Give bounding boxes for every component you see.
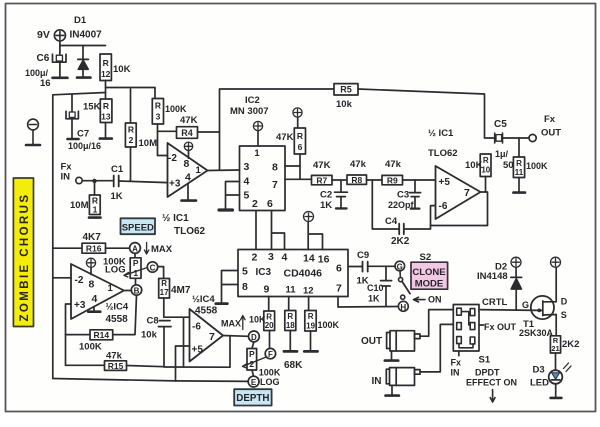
label box CLONE MODE: [411, 262, 448, 289]
resistor R10: [480, 154, 491, 177]
wire S1 Fx out stub: [479, 324, 484, 326]
svg-text:EFFECT ON: EFFECT ON: [466, 378, 517, 388]
jack IN: [386, 324, 454, 395]
svg-text:100K: 100K: [526, 161, 548, 171]
potentiometer P2: [247, 342, 257, 376]
svg-text:C: C: [150, 264, 156, 273]
resistor R3: [152, 99, 167, 156]
svg-text:10M: 10M: [70, 200, 89, 211]
power flag IC1a pin8: [184, 142, 192, 158]
svg-text:5: 5: [244, 190, 250, 202]
IC U3 CD4046 body: [238, 250, 348, 297]
wire R5 to right edge: [358, 89, 485, 138]
svg-text:R4: R4: [181, 128, 193, 138]
svg-text:100μ/16: 100μ/16: [68, 141, 101, 151]
svg-text:8: 8: [242, 281, 248, 293]
node A: [130, 243, 141, 254]
resistor R2: [125, 89, 136, 181]
svg-text:D: D: [251, 333, 257, 342]
capacitor C4 branch: [372, 180, 435, 234]
svg-text:6: 6: [267, 198, 273, 210]
svg-text:1K: 1K: [368, 294, 380, 304]
svg-text:Fx OUT: Fx OUT: [484, 322, 517, 332]
svg-text:S1: S1: [479, 355, 491, 366]
svg-text:TLO62: TLO62: [174, 226, 206, 237]
node F: [265, 348, 275, 358]
svg-text:4558: 4558: [106, 314, 129, 325]
svg-text:ZOMBIE CHORUS: ZOMBIE CHORUS: [19, 193, 31, 322]
svg-text:1: 1: [254, 148, 260, 159]
svg-text:C1: C1: [111, 164, 124, 175]
resistor R15: [66, 361, 164, 371]
svg-text:14: 14: [303, 253, 315, 265]
node E: [248, 376, 259, 387]
svg-text:16: 16: [318, 254, 330, 266]
svg-text:MN 3007: MN 3007: [230, 106, 269, 117]
power flag IC4a pin8: [86, 258, 95, 274]
capacitor C6: [53, 46, 68, 78]
switch S1 lugs: [457, 308, 475, 344]
label box DEPTH: [234, 389, 271, 405]
svg-text:100K: 100K: [259, 368, 281, 378]
wire +V rail2 to left vertical: [53, 93, 106, 379]
svg-text:IN4007: IN4007: [70, 30, 103, 41]
svg-text:½ IC1: ½ IC1: [428, 128, 454, 139]
svg-text:CRTL: CRTL: [482, 297, 508, 308]
wire S1 Fx in stub: [458, 351, 460, 356]
svg-text:1: 1: [93, 205, 98, 215]
node Fx OUT jack: [529, 134, 536, 141]
diode D1: [77, 46, 91, 78]
capacitor C10: [381, 266, 392, 306]
jack OUT: [385, 310, 454, 361]
svg-text:8: 8: [184, 158, 190, 170]
capacitor C9: [348, 262, 395, 272]
svg-text:R: R: [161, 279, 167, 288]
svg-text:R8: R8: [351, 175, 362, 185]
svg-text:68K: 68K: [284, 360, 303, 371]
svg-text:D3: D3: [533, 365, 545, 376]
capacitor C5: [486, 133, 530, 143]
ground IC1a pin4: [182, 184, 197, 201]
resistor R18: [284, 297, 297, 352]
svg-text:R: R: [155, 101, 161, 111]
svg-text:2K2: 2K2: [562, 339, 579, 350]
svg-text:8: 8: [89, 279, 95, 291]
wire -6 node IC4b: [164, 317, 190, 367]
svg-text:10K: 10K: [249, 315, 266, 325]
wire +V rail1: [106, 88, 156, 100]
arrow max down: [144, 243, 148, 255]
svg-text:R14: R14: [94, 330, 110, 340]
svg-text:2SK30A: 2SK30A: [519, 328, 554, 338]
svg-text:LOG: LOG: [105, 265, 126, 276]
svg-text:4: 4: [244, 176, 250, 188]
svg-text:CD4046: CD4046: [284, 268, 323, 280]
svg-text:6: 6: [336, 263, 342, 275]
svg-text:P: P: [249, 349, 255, 359]
svg-text:4: 4: [92, 293, 98, 305]
svg-text:21: 21: [551, 344, 559, 353]
svg-text:100K: 100K: [79, 342, 102, 353]
svg-text:15K: 15K: [83, 102, 101, 113]
power flag D2: [511, 257, 521, 267]
svg-text:3: 3: [268, 251, 274, 263]
wiper arrow P2: [243, 357, 267, 368]
wire IC3 pin7 to H: [338, 297, 398, 308]
svg-text:CLONE: CLONE: [412, 267, 445, 278]
svg-text:½ IC1: ½ IC1: [162, 213, 189, 224]
svg-text:1K: 1K: [320, 200, 332, 211]
svg-text:5: 5: [242, 266, 248, 278]
svg-text:Fx: Fx: [544, 114, 556, 125]
resistor R7: [312, 175, 333, 184]
resistor R21: [550, 336, 560, 370]
switch S2 node G: [395, 261, 405, 271]
svg-text:47k: 47k: [385, 159, 402, 170]
wire 9V to rail: [60, 41, 106, 46]
svg-text:1μ/: 1μ/: [495, 149, 509, 159]
svg-text:-2: -2: [168, 153, 177, 164]
svg-text:Fx: Fx: [451, 358, 462, 368]
svg-text:2: 2: [249, 359, 254, 369]
svg-text:R: R: [287, 312, 293, 321]
wiper arrow P1: [124, 268, 147, 278]
svg-text:IN4148: IN4148: [477, 271, 508, 282]
switch S2 lever: [399, 271, 411, 300]
svg-text:10k: 10k: [336, 99, 353, 110]
svg-text:R9: R9: [387, 176, 398, 186]
svg-text:R5: R5: [340, 85, 352, 95]
svg-text:7: 7: [336, 283, 342, 295]
wire IC2 pin7 to R7: [285, 178, 312, 180]
svg-text:ON: ON: [428, 295, 442, 305]
battery 9V positive terminal: [54, 30, 65, 41]
svg-text:F: F: [268, 350, 273, 359]
svg-text:½IC4: ½IC4: [106, 302, 129, 313]
svg-text:IN: IN: [372, 376, 382, 387]
svg-text:D: D: [561, 297, 568, 307]
svg-text:SPEED: SPEED: [122, 222, 154, 233]
svg-text:12: 12: [101, 69, 111, 79]
node C: [147, 262, 157, 272]
capacitor C7: [66, 94, 79, 139]
svg-text:E: E: [251, 378, 257, 387]
wire IC4a output to B: [124, 290, 131, 292]
svg-text:2: 2: [252, 198, 258, 210]
svg-text:7: 7: [209, 331, 215, 343]
resistor R11: [513, 138, 525, 193]
power flag IC2 pin1: [253, 121, 262, 146]
svg-text:7: 7: [464, 187, 470, 199]
power flag T1 drain: [551, 257, 561, 267]
resistor R1: [89, 181, 101, 218]
svg-text:4K7: 4K7: [83, 232, 102, 243]
resistor R8: [347, 175, 367, 184]
svg-text:19: 19: [306, 322, 315, 331]
wire IC2 pins4,5 to ground: [226, 182, 240, 210]
svg-text:100μ/: 100μ/: [25, 68, 49, 78]
svg-text:6: 6: [298, 142, 303, 152]
wire CRTL: [479, 309, 538, 312]
capacitor C3: [410, 180, 421, 209]
wire IC1a output to IC2 pin3: [208, 169, 240, 172]
svg-text:2: 2: [252, 252, 258, 264]
resistor R13: [100, 99, 112, 139]
svg-text:47K: 47K: [180, 115, 198, 126]
wire -2 input IC4a: [53, 277, 71, 279]
wire E long feedback: [53, 379, 248, 382]
svg-text:100K: 100K: [318, 320, 340, 330]
switch S2 node H: [398, 301, 408, 311]
svg-text:4: 4: [185, 172, 191, 184]
wire C1 to +3 input: [119, 181, 168, 183]
svg-text:9V: 9V: [37, 29, 50, 41]
wire input: [82, 180, 113, 182]
arrow ON: [414, 297, 426, 302]
resistor R14: [66, 330, 113, 340]
svg-text:R: R: [128, 125, 134, 135]
wire R8 to R9: [367, 179, 383, 181]
svg-text:G: G: [522, 300, 529, 310]
svg-text:C2: C2: [320, 190, 332, 201]
svg-text:4558: 4558: [195, 306, 218, 317]
svg-text:R15: R15: [108, 361, 124, 371]
svg-text:3: 3: [244, 161, 250, 173]
capacitor C8: [158, 321, 171, 367]
svg-text:11: 11: [286, 285, 297, 296]
node D: [249, 331, 260, 342]
capacitor C2: [335, 180, 348, 208]
IC U2 MN3007 body: [240, 146, 286, 211]
resistor R19: [304, 297, 317, 352]
svg-text:H: H: [400, 303, 406, 312]
svg-text:18: 18: [286, 321, 295, 330]
svg-text:16: 16: [40, 78, 51, 89]
transistor Q T1 2SK30A: [531, 267, 556, 336]
svg-text:C7: C7: [77, 129, 89, 140]
svg-text:22Opf: 22Opf: [388, 200, 415, 210]
svg-text:OUT: OUT: [541, 128, 561, 139]
svg-text:47k: 47k: [106, 351, 123, 362]
svg-text:IN: IN: [451, 368, 460, 378]
svg-text:2K2: 2K2: [391, 236, 410, 247]
svg-text:R: R: [297, 131, 303, 141]
svg-text:20: 20: [265, 321, 274, 330]
svg-text:3: 3: [156, 112, 161, 122]
op-amp U IC1a: [168, 143, 208, 197]
svg-text:C10: C10: [367, 283, 384, 293]
svg-text:½IC4: ½IC4: [192, 294, 215, 305]
svg-text:D1: D1: [74, 15, 87, 26]
svg-text:10K: 10K: [113, 64, 131, 75]
svg-text:LOG: LOG: [260, 377, 280, 387]
svg-text:IC2: IC2: [245, 95, 260, 106]
svg-text:7: 7: [272, 179, 278, 191]
wire IC4b output to D: [223, 335, 248, 338]
svg-text:-6: -6: [439, 201, 448, 212]
svg-text:S: S: [561, 310, 567, 320]
node B: [131, 285, 141, 295]
svg-text:1: 1: [133, 268, 138, 278]
junction R1 top: [92, 179, 96, 183]
node Fx IN: [76, 177, 82, 183]
svg-text:+5: +5: [439, 177, 451, 188]
resistor R12: [100, 54, 111, 88]
op-amp U IC1b: [436, 166, 481, 219]
svg-text:R: R: [103, 58, 109, 68]
svg-text:10k: 10k: [141, 330, 158, 341]
svg-text:47K: 47K: [276, 132, 294, 143]
power flag IC3 pins14,16: [304, 212, 323, 250]
svg-text:12: 12: [303, 286, 314, 297]
svg-text:+3: +3: [169, 179, 181, 190]
wire B to R14: [113, 295, 137, 334]
svg-text:R7: R7: [316, 176, 327, 186]
label box ZOMBIE CHORUS: [13, 178, 33, 327]
wire IC2 pin8 to R6: [285, 154, 300, 179]
svg-text:4M7: 4M7: [171, 285, 191, 296]
svg-text:-6: -6: [192, 322, 201, 333]
svg-text:R: R: [308, 312, 314, 321]
svg-text:C4: C4: [385, 216, 398, 227]
svg-text:13: 13: [101, 112, 111, 122]
svg-text:P: P: [133, 258, 139, 268]
label box SPEED: [121, 218, 156, 234]
capacitor C1: [114, 176, 119, 187]
svg-text:+3: +3: [74, 300, 86, 311]
diode D2: [511, 267, 522, 310]
svg-text:+5: +5: [192, 345, 204, 356]
wire IC3 pins5,8 to ground: [222, 271, 239, 303]
svg-text:R: R: [103, 101, 109, 111]
ground IC2: [219, 208, 233, 211]
wire IC2 pin2 to IC3 pin2: [255, 211, 257, 250]
svg-text:-2: -2: [75, 275, 84, 286]
ground IC3: [216, 302, 228, 305]
svg-text:MODE: MODE: [415, 279, 444, 290]
svg-text:R: R: [483, 156, 489, 165]
LED D3: [549, 363, 571, 398]
svg-text:R: R: [516, 159, 522, 168]
op-amp U IC4a: [71, 264, 124, 319]
svg-text:B: B: [134, 287, 140, 296]
svg-text:A: A: [132, 245, 138, 254]
switch S1 body: [453, 305, 479, 352]
svg-text:C6: C6: [37, 53, 50, 64]
svg-text:MAX: MAX: [221, 319, 241, 329]
arrow max up: [241, 316, 245, 330]
switch S1 internal links: [459, 312, 473, 348]
wire +3 input IC4a: [66, 304, 72, 365]
svg-text:10: 10: [481, 166, 490, 175]
svg-text:TLO62: TLO62: [428, 148, 458, 159]
svg-text:C3: C3: [397, 190, 409, 201]
svg-text:IC3: IC3: [256, 267, 272, 278]
svg-text:47k: 47k: [350, 159, 367, 170]
arrow effect on: [490, 390, 495, 403]
svg-text:C8: C8: [147, 316, 159, 327]
svg-text:10K: 10K: [465, 160, 483, 171]
svg-text:C9: C9: [357, 250, 369, 261]
svg-text:17: 17: [160, 288, 169, 297]
svg-text:G: G: [397, 263, 403, 272]
svg-text:11: 11: [515, 168, 524, 177]
resistor R16: [53, 243, 130, 253]
input jack sleeve (minus): [26, 119, 40, 145]
svg-text:DPDT: DPDT: [475, 368, 500, 378]
svg-text:4: 4: [282, 252, 288, 264]
resistor R5: [334, 84, 358, 95]
svg-text:R16: R16: [86, 244, 102, 254]
wire IC4b feedback loop: [164, 336, 230, 367]
svg-text:C5: C5: [494, 119, 507, 130]
svg-text:2: 2: [129, 135, 134, 145]
svg-text:10M: 10M: [139, 138, 158, 149]
wire feedback top rail: [220, 89, 335, 170]
potentiometer P1: [130, 253, 141, 284]
wire IC1b feedback loop: [431, 192, 488, 226]
svg-text:8: 8: [272, 162, 278, 174]
op-amp U IC4b: [190, 309, 224, 362]
resistor R9: [382, 175, 403, 184]
svg-text:47K: 47K: [313, 160, 331, 171]
svg-text:LED: LED: [530, 378, 549, 389]
svg-text:1: 1: [196, 165, 202, 176]
resistor R17: [158, 267, 170, 317]
power flag R6 top: [293, 108, 302, 128]
svg-text:OUT: OUT: [361, 336, 382, 347]
svg-text:DEPTH: DEPTH: [236, 393, 269, 404]
svg-text:50: 50: [503, 160, 514, 171]
svg-text:S2: S2: [420, 252, 432, 263]
svg-text:1: 1: [108, 283, 114, 294]
wire R7 to R8: [332, 179, 347, 181]
ground IC4a pin4: [88, 308, 100, 312]
svg-text:MAX: MAX: [151, 244, 173, 255]
resistor R20: [264, 297, 275, 349]
svg-text:9: 9: [264, 284, 270, 296]
resistor R6: [294, 128, 305, 154]
svg-text:1K: 1K: [111, 191, 123, 202]
svg-text:100K: 100K: [165, 104, 187, 114]
wire R9 to +5 input: [403, 179, 436, 181]
wire IC2 pin6 to IC3 pins3,4: [272, 211, 285, 250]
svg-text:IN: IN: [61, 172, 71, 183]
wire +5 input IC4b: [176, 346, 190, 381]
wire R10 to output node: [485, 177, 487, 193]
resistor R4: [158, 127, 220, 139]
